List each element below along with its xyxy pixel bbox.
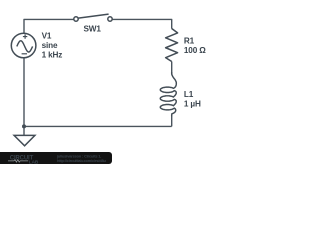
svg-text:LAB: LAB bbox=[29, 159, 39, 164]
svg-text:1 µH: 1 µH bbox=[184, 100, 201, 109]
resistor R1 bbox=[166, 29, 178, 62]
junction node bbox=[22, 124, 26, 128]
wire bottom rail bbox=[24, 125, 172, 127]
watermark strip bbox=[0, 152, 112, 164]
wire right middle R1 to L1 bbox=[171, 62, 173, 75]
svg-text:L1: L1 bbox=[184, 90, 194, 99]
switch SW1 bbox=[74, 14, 112, 21]
voltage source V1 bbox=[11, 33, 36, 58]
svg-text:sine: sine bbox=[42, 41, 58, 50]
inductor L1 bbox=[160, 72, 176, 116]
wire left V1 to junction bbox=[23, 58, 25, 127]
wire ground stub bbox=[23, 126, 25, 135]
svg-text:SW1: SW1 bbox=[84, 24, 102, 33]
svg-text:100 Ω: 100 Ω bbox=[184, 46, 206, 55]
wire right bottom L1 to bottom rail bbox=[171, 116, 173, 127]
svg-text:http://circuitlab.com/c/rs/d8u: http://circuitlab.com/c/rs/d8u bbox=[57, 158, 106, 163]
wire top-left segment bbox=[24, 19, 74, 33]
svg-text:1 kHz: 1 kHz bbox=[42, 51, 63, 60]
svg-text:R1: R1 bbox=[184, 36, 195, 45]
wire top-right segment bbox=[112, 19, 172, 28]
svg-text:V1: V1 bbox=[42, 31, 52, 40]
watermark logo bbox=[0, 152, 112, 164]
ground bbox=[14, 135, 35, 145]
